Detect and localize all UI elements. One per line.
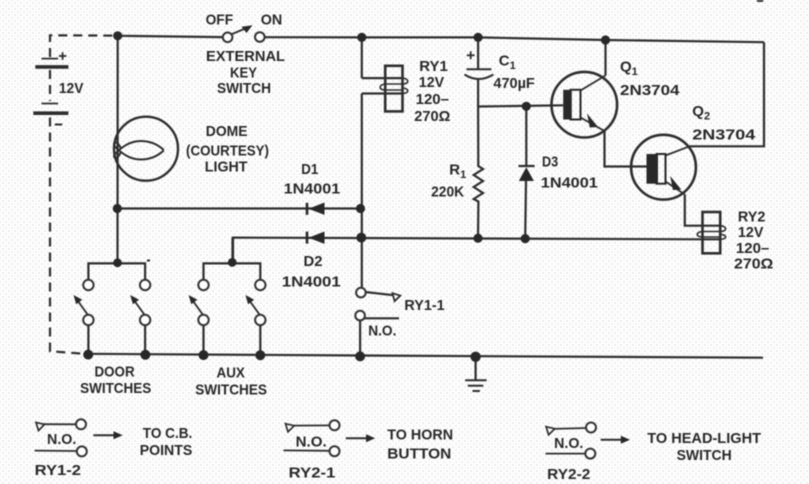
svg-text:TO HEAD-LIGHT: TO HEAD-LIGHT (647, 430, 761, 447)
svg-text:N.O.: N.O. (554, 435, 583, 452)
svg-text:OFF: OFF (206, 11, 234, 28)
svg-text:120–: 120– (736, 240, 769, 257)
svg-text:2N3704: 2N3704 (620, 82, 680, 99)
svg-text:(COURTESY): (COURTESY) (186, 142, 269, 159)
svg-text:SWITCHES: SWITCHES (80, 380, 151, 397)
svg-text:DOOR: DOOR (95, 363, 135, 380)
svg-text:1N4001: 1N4001 (541, 175, 598, 192)
svg-text:RY2-1: RY2-1 (289, 465, 336, 482)
svg-text:C1: C1 (499, 53, 516, 73)
svg-text:N.O.: N.O. (368, 323, 396, 340)
svg-text:TO HORN: TO HORN (387, 427, 453, 444)
svg-text:270Ω: 270Ω (414, 108, 450, 125)
svg-text:DOME: DOME (206, 123, 248, 140)
svg-text:RY2: RY2 (738, 208, 766, 225)
svg-text:RY1: RY1 (419, 58, 448, 75)
svg-text:N.O.: N.O. (47, 431, 76, 448)
svg-text:RY1-1: RY1-1 (404, 297, 444, 314)
svg-text:1N4001: 1N4001 (282, 274, 341, 291)
svg-text:D3: D3 (542, 153, 558, 170)
svg-text:TO C.B.: TO C.B. (143, 425, 193, 442)
svg-text:RY1-2: RY1-2 (35, 462, 81, 479)
svg-text:12V: 12V (738, 224, 764, 241)
svg-text:AUX: AUX (217, 365, 245, 382)
svg-text:Q2: Q2 (692, 103, 710, 123)
svg-text:1N4001: 1N4001 (284, 180, 341, 197)
svg-text:270Ω: 270Ω (734, 256, 773, 273)
svg-text:120–: 120– (416, 91, 449, 108)
svg-text:D1: D1 (301, 161, 318, 178)
svg-text:SWITCHES: SWITCHES (195, 382, 267, 399)
svg-text:12V: 12V (419, 74, 444, 91)
svg-text:12V: 12V (59, 80, 84, 97)
svg-text:R1: R1 (449, 162, 466, 182)
svg-text:220K: 220K (431, 183, 464, 200)
svg-text:SWITCH: SWITCH (217, 80, 271, 97)
svg-text:LIGHT: LIGHT (205, 158, 248, 175)
svg-text:EXTERNAL: EXTERNAL (206, 48, 285, 65)
svg-text:KEY: KEY (230, 65, 257, 82)
svg-text:2N3704: 2N3704 (692, 127, 756, 144)
svg-text:SWITCH: SWITCH (677, 447, 732, 464)
svg-text:N.O.: N.O. (296, 434, 327, 451)
svg-text:RY2-2: RY2-2 (547, 466, 590, 483)
svg-text:D2: D2 (304, 253, 323, 270)
svg-text:Q1: Q1 (620, 59, 638, 79)
svg-text:POINTS: POINTS (140, 442, 193, 459)
svg-text:BUTTON: BUTTON (387, 446, 451, 463)
svg-text:ON: ON (261, 12, 283, 29)
svg-text:470µF: 470µF (493, 75, 534, 92)
